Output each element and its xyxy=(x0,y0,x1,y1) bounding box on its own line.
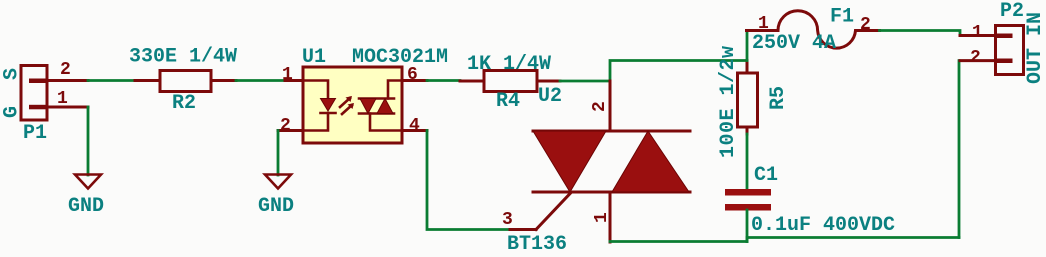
svg-text:4: 4 xyxy=(409,116,420,136)
wire U1 pin4 to triac gate xyxy=(427,131,512,230)
svg-text:2: 2 xyxy=(970,48,981,68)
svg-text:P2: P2 xyxy=(1000,0,1024,23)
svg-text:1: 1 xyxy=(282,65,293,85)
wire R4 to MT2 node xyxy=(560,80,610,83)
svg-text:6: 6 xyxy=(407,65,418,85)
resistor R4 xyxy=(460,71,560,92)
svg-text:1: 1 xyxy=(972,23,983,43)
wire P1 pin1 down to GND xyxy=(87,107,90,175)
svg-text:U1: U1 xyxy=(302,46,326,69)
svg-text:1: 1 xyxy=(592,212,612,223)
wire U1 pin6 to R4 xyxy=(427,79,460,82)
svg-text:BT136: BT136 xyxy=(507,233,567,256)
connector P2 xyxy=(960,26,1024,75)
svg-text:GND: GND xyxy=(258,195,294,218)
svg-text:1K 1/4W: 1K 1/4W xyxy=(467,53,551,76)
svg-text:C1: C1 xyxy=(754,164,778,187)
wire F1 to P2 pin1 xyxy=(880,31,961,36)
svg-text:R5: R5 xyxy=(767,86,790,110)
svg-text:330E 1/4W: 330E 1/4W xyxy=(129,46,237,69)
svg-text:2: 2 xyxy=(280,116,291,136)
svg-text:2: 2 xyxy=(590,101,610,112)
connector P1 xyxy=(21,66,88,121)
svg-text:1: 1 xyxy=(758,14,769,34)
svg-text:2: 2 xyxy=(860,15,871,35)
svg-text:100E 1/2w: 100E 1/2w xyxy=(717,45,740,158)
wire P2 pin2 down to bottom rail xyxy=(958,61,961,238)
svg-text:1: 1 xyxy=(57,89,68,109)
svg-text:R2: R2 xyxy=(172,92,196,115)
svg-text:0.1uF 400VDC: 0.1uF 400VDC xyxy=(751,214,895,237)
svg-text:F1: F1 xyxy=(830,6,854,29)
svg-text:P1: P1 xyxy=(23,122,47,145)
wire bottom rail jog xyxy=(747,238,959,242)
opto-isolator U1 xyxy=(278,67,427,143)
triac U2 xyxy=(510,81,690,242)
svg-text:3: 3 xyxy=(502,210,513,230)
svg-text:250V 4A: 250V 4A xyxy=(752,32,836,55)
svg-text:U2: U2 xyxy=(538,85,562,108)
svg-text:R4: R4 xyxy=(496,90,520,113)
svg-text:GND: GND xyxy=(68,195,104,218)
resistor R2 xyxy=(135,71,236,92)
svg-text:2: 2 xyxy=(60,60,71,80)
wire U1 pin2 down to GND xyxy=(277,131,280,176)
wire C1 to bottom rail xyxy=(746,210,749,242)
svg-text:G S: G S xyxy=(1,61,24,118)
fuse F1 xyxy=(747,11,880,48)
svg-text:OUT IN: OUT IN xyxy=(1024,12,1046,84)
resistor R5 xyxy=(738,61,758,135)
ground GND2 xyxy=(258,175,294,219)
wire R2 to U1 pin1 xyxy=(236,79,285,82)
wire MT1 to bottom rail xyxy=(610,240,747,243)
wire R5 to C1 xyxy=(746,134,749,189)
wire P1 pin2 to R2 xyxy=(88,79,135,82)
ground GND1 xyxy=(68,175,104,219)
capacitor C1 xyxy=(725,189,771,211)
svg-text:MOC3021M: MOC3021M xyxy=(352,46,448,69)
wire top rail to F1 xyxy=(746,31,749,61)
wire node to top rail xyxy=(610,61,747,82)
